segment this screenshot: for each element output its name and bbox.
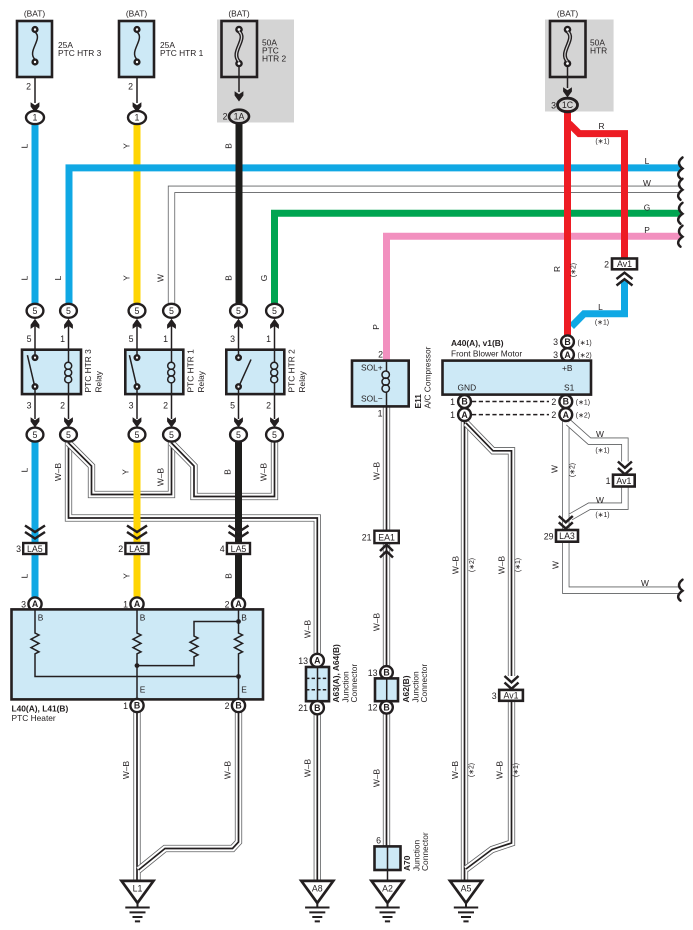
svg-text:B: B [224,275,234,281]
connector 4 LA5 [220,526,250,555]
svg-text:Connector: Connector [349,664,359,703]
svg-text:B: B [134,701,140,711]
resistor R2 [133,609,141,699]
fuse 50A HTR [550,9,607,112]
svg-text:L: L [20,275,30,280]
wire W-B junction A63 pin21 to ground A8 [314,712,321,881]
svg-text:Relay: Relay [94,370,104,392]
svg-text:1: 1 [135,113,140,123]
svg-text:1: 1 [266,334,271,344]
svg-text:3: 3 [553,350,558,360]
svg-text:SOL−: SOL− [361,394,383,404]
svg-text:5: 5 [33,430,38,440]
connector 2 Av1 [604,259,637,286]
node dots [236,619,241,624]
svg-text:Av1: Av1 [617,259,632,269]
svg-text:1: 1 [163,334,168,344]
svg-text:1C: 1C [562,100,574,110]
wire Y fuse2 to relay2 pin5 [134,124,141,304]
svg-text:5: 5 [135,430,140,440]
svg-text:W: W [596,495,604,505]
wire L bus horizontal to relay1 pin1 [69,168,681,304]
svg-text:2: 2 [26,82,31,92]
svg-text:6: 6 [376,836,381,846]
front blower motor A40(A), v1(B) [443,335,592,421]
svg-text:5: 5 [236,306,241,316]
svg-text:B: B [314,703,320,713]
svg-text:E11: E11 [413,394,423,409]
svg-text:A: A [134,599,141,609]
connector 1 Av1 [606,462,635,487]
svg-text:(∗2): (∗2) [469,558,476,572]
fuse 25A PTC HTR 1 [119,9,204,125]
svg-text:LA5: LA5 [231,544,247,554]
svg-text:W–B: W–B [451,556,461,575]
svg-text:(∗2): (∗2) [469,763,476,777]
svg-text:1: 1 [450,410,455,420]
svg-text:PTC HTR 3: PTC HTR 3 [83,349,93,393]
svg-text:LA3: LA3 [559,531,575,541]
svg-text:Av1: Av1 [504,691,519,701]
wire L Av1 to blower +B (*1) [572,280,625,327]
svg-text:W: W [596,429,604,439]
svg-text:(∗1): (∗1) [515,558,522,572]
svg-text:W–B: W–B [372,462,382,481]
svg-text:(∗1): (∗1) [513,763,520,777]
svg-text:1: 1 [123,701,128,711]
connector 3 Av1 [492,676,523,701]
junction connector A63(A), A64(B) [298,644,359,714]
svg-text:L1: L1 [133,884,143,894]
svg-text:13: 13 [298,656,308,666]
squiggle W bottom [678,580,682,601]
connector 29 LA3 [544,516,578,542]
svg-text:2: 2 [225,599,230,609]
svg-text:(∗2): (∗2) [578,353,592,360]
svg-text:(BAT): (BAT) [24,9,45,19]
svg-text:B: B [140,613,146,623]
svg-text:W: W [156,274,166,282]
svg-text:PTC HTR 2: PTC HTR 2 [287,349,297,393]
svg-text:(∗1): (∗1) [578,340,592,347]
svg-text:W–B: W–B [302,620,312,639]
svg-text:SOL+: SOL+ [361,363,383,373]
svg-text:4: 4 [220,544,225,554]
svg-text:(∗1): (∗1) [595,139,609,146]
wire W-B PTC heater pin 1B to ground L1 [133,711,140,881]
svg-text:W–B: W–B [156,468,166,487]
svg-text:2: 2 [604,259,609,269]
svg-text:B: B [564,337,570,347]
svg-text:2: 2 [118,544,123,554]
ground A5 [450,881,482,922]
svg-text:1: 1 [123,599,128,609]
svg-text:Y: Y [121,469,131,475]
svg-text:HTR: HTR [590,46,607,56]
svg-text:L: L [645,156,650,166]
svg-text:G: G [259,275,269,282]
svg-text:Y: Y [122,573,132,579]
svg-text:W–B: W–B [302,759,312,778]
svg-text:B: B [563,397,569,407]
svg-text:B: B [235,701,241,711]
svg-text:W–B: W–B [495,761,505,780]
svg-text:Connector: Connector [420,832,430,871]
svg-text:PTC HTR 1: PTC HTR 1 [160,48,204,58]
svg-text:(BAT): (BAT) [228,9,249,19]
svg-text:Av1: Av1 [616,476,631,486]
svg-text:(BAT): (BAT) [126,9,147,19]
svg-text:LA5: LA5 [129,544,145,554]
wire W-B junction A62 pin12 to junction A70 to ground A2 [383,713,390,846]
connector 2 LA5 [118,526,148,555]
squiggle P bus [678,226,682,247]
svg-text:3: 3 [492,691,497,701]
svg-text:2: 2 [163,401,168,411]
svg-text:5: 5 [129,334,134,344]
svg-text:W–B: W–B [497,556,507,575]
wire W-B PTC heater pin 2B joining ground L1 [139,711,239,870]
ground A8 [301,881,333,922]
svg-text:A40(A), v1(B): A40(A), v1(B) [451,338,504,348]
wire W (*2) blower S1 down to LA3 and right to edge [566,420,681,590]
resistor R4 [235,609,243,699]
connector 21 EA1 [362,531,399,558]
svg-text:A: A [314,656,321,666]
svg-text:L: L [20,143,30,148]
svg-text:5: 5 [66,306,71,316]
svg-text:L: L [20,573,30,578]
svg-text:A: A [235,599,242,609]
wire B relay3 pin5 to LA5 to PTC heater A2 [235,441,242,598]
svg-text:Connector: Connector [419,664,429,703]
svg-text:5: 5 [27,334,32,344]
svg-text:A63(A), A64(B): A63(A), A64(B) [331,644,341,703]
squiggle W bus [678,179,682,200]
svg-text:LA5: LA5 [27,544,43,554]
svg-text:1: 1 [33,113,38,123]
svg-text:(BAT): (BAT) [557,9,578,19]
svg-text:(∗1): (∗1) [595,512,609,519]
svg-text:A: A [32,599,39,609]
svg-text:B: B [383,668,389,678]
svg-text:W: W [551,561,561,569]
wire W-B (*2) blower GND to ground A5 [461,420,468,881]
svg-text:Front Blower Motor: Front Blower Motor [451,349,522,359]
wire W-B relay1 pin2 to relay2 pin2 chain [69,440,172,495]
fuse 50A PTC HTR 2 [222,9,287,124]
svg-text:2: 2 [225,701,230,711]
svg-text:Relay: Relay [297,370,307,392]
svg-text:W: W [643,178,651,188]
svg-text:5: 5 [272,306,277,316]
wire W-B relay2 pin2 to relay3 pin2 chain [172,440,275,497]
svg-text:3: 3 [129,401,134,411]
svg-text:(∗1): (∗1) [595,320,609,327]
svg-text:B: B [223,469,233,475]
svg-text:B: B [224,573,234,579]
svg-text:HTR 2: HTR 2 [262,54,287,64]
svg-text:(∗1): (∗1) [576,400,590,407]
squiggle L bus [678,158,682,179]
wire L fuse1 to relay1 pin5 [32,124,39,304]
svg-text:1A: 1A [234,112,245,122]
svg-text:5: 5 [230,401,235,411]
svg-text:B: B [383,703,389,713]
svg-text:L40(A), L41(B): L40(A), L41(B) [12,704,69,714]
svg-text:3: 3 [553,337,558,347]
svg-text:P: P [644,225,650,235]
svg-text:A62(B): A62(B) [401,675,411,702]
relay PTC HTR 2 [226,304,307,442]
svg-text:A8: A8 [312,884,323,894]
svg-text:21: 21 [362,533,372,543]
svg-text:PTC HTR 1: PTC HTR 1 [186,349,196,393]
svg-text:3: 3 [21,599,26,609]
A/C compressor E11 SOL [352,346,433,418]
fuse 25A PTC HTR 3 [17,9,102,125]
wire W-B relay1 pin2 down to bus and to junction A63 pin13 [69,440,318,653]
svg-text:5: 5 [272,430,277,440]
svg-text:2: 2 [266,401,271,411]
svg-text:W–B: W–B [372,613,382,632]
gray panel behind 50A PTC HTR 2 fuse [217,20,294,123]
junction connector A70 [375,832,431,871]
svg-text:W–B: W–B [121,761,131,780]
svg-text:+B: +B [562,363,573,373]
svg-text:Y: Y [122,275,132,281]
svg-text:1: 1 [60,334,65,344]
wire A70 to ground A2 [387,870,389,882]
svg-text:R: R [598,121,604,131]
svg-text:EA1: EA1 [378,532,395,542]
svg-text:GND: GND [458,383,477,393]
svg-text:5: 5 [33,306,38,316]
svg-text:W–B: W–B [223,761,233,780]
svg-text:3: 3 [27,401,32,411]
svg-text:Y: Y [122,143,132,149]
svg-text:2: 2 [60,401,65,411]
svg-text:(∗2): (∗2) [576,413,590,420]
svg-text:A70: A70 [402,855,412,871]
junction connector A62(B) [368,664,429,714]
svg-text:13: 13 [368,668,378,678]
svg-text:1: 1 [606,476,611,486]
svg-text:5: 5 [236,430,241,440]
svg-text:Relay: Relay [196,370,206,392]
svg-text:L: L [598,302,603,312]
svg-text:E: E [140,685,146,695]
svg-text:5: 5 [66,430,71,440]
svg-text:P: P [371,324,381,330]
svg-text:(∗2): (∗2) [571,263,578,277]
gray panel behind 50A HTR fuse [545,20,614,112]
svg-text:5: 5 [169,430,174,440]
wire R fuse4 to blower +B (*2) [564,110,571,336]
wire P bus horizontal to A/C compressor SOL+ [387,236,682,360]
svg-text:2: 2 [551,397,556,407]
svg-text:1: 1 [450,397,455,407]
resistor R1 [31,609,239,676]
connector 3 LA5 [16,526,46,555]
svg-text:3: 3 [551,101,556,111]
svg-text:B: B [241,613,247,623]
svg-text:2: 2 [551,410,556,420]
svg-text:A/C Compressor: A/C Compressor [423,346,433,408]
ground A2 [372,881,404,922]
svg-text:B: B [461,397,467,407]
svg-text:R: R [552,266,562,272]
svg-text:29: 29 [544,531,554,541]
wire G bus horizontal to relay3 pin1 [275,213,682,304]
relay PTC HTR 1 [125,304,206,442]
svg-text:3: 3 [16,544,21,554]
svg-text:W–B: W–B [450,761,460,780]
svg-text:W–B: W–B [259,463,269,482]
svg-text:3: 3 [230,334,235,344]
svg-text:A5: A5 [461,884,472,894]
ground L1 [122,881,154,922]
svg-text:A: A [563,410,570,420]
resistor R3 [137,622,239,666]
svg-text:W–B: W–B [53,463,63,482]
svg-text:2: 2 [128,82,133,92]
svg-text:S1: S1 [564,383,575,393]
svg-text:W: W [641,578,649,588]
wire W-B (*1) blower GND to 3 Av1 and down joining ground A5 [466,423,512,869]
relay PTC HTR 3 [22,304,104,442]
svg-text:2: 2 [223,112,228,122]
wire B fuse3 to relay3 pin3 [236,124,243,304]
wire W (*1) blower S1 to 1 Av1 and back to LA3 [569,423,625,518]
svg-text:(∗1): (∗1) [595,448,609,455]
PTC heater L40(A), L41(B) [12,597,264,723]
wire R branch to 2 Av1 (*1) [569,124,625,259]
svg-text:5: 5 [169,306,174,316]
svg-text:A: A [461,410,468,420]
svg-text:5: 5 [135,306,140,316]
squiggle G bus [678,203,682,224]
svg-text:A: A [564,350,571,360]
svg-text:W: W [550,465,560,473]
svg-text:A2: A2 [382,884,393,894]
svg-text:PTC Heater: PTC Heater [12,713,56,723]
svg-text:B: B [224,143,234,149]
svg-text:B: B [38,613,44,623]
wire Y relay2 pin3 to LA5 to PTC heater A1 [134,441,141,598]
wire W bus horizontal to relay2 pin1 [172,189,682,304]
svg-text:1: 1 [378,409,383,419]
svg-text:PTC HTR 3: PTC HTR 3 [58,48,102,58]
svg-text:L: L [53,275,63,280]
wire W-B A/C compressor SOL- to EA1 to junction A62 [383,406,390,666]
svg-text:12: 12 [368,703,378,713]
svg-text:L: L [20,467,30,472]
svg-text:G: G [644,203,651,213]
svg-text:21: 21 [298,703,308,713]
wire L relay1 pin3 to LA5 to PTC heater A3 [32,441,39,598]
svg-text:E: E [241,685,247,695]
svg-text:2: 2 [378,350,383,360]
svg-text:(∗2): (∗2) [570,463,577,477]
svg-text:W–B: W–B [372,769,382,788]
